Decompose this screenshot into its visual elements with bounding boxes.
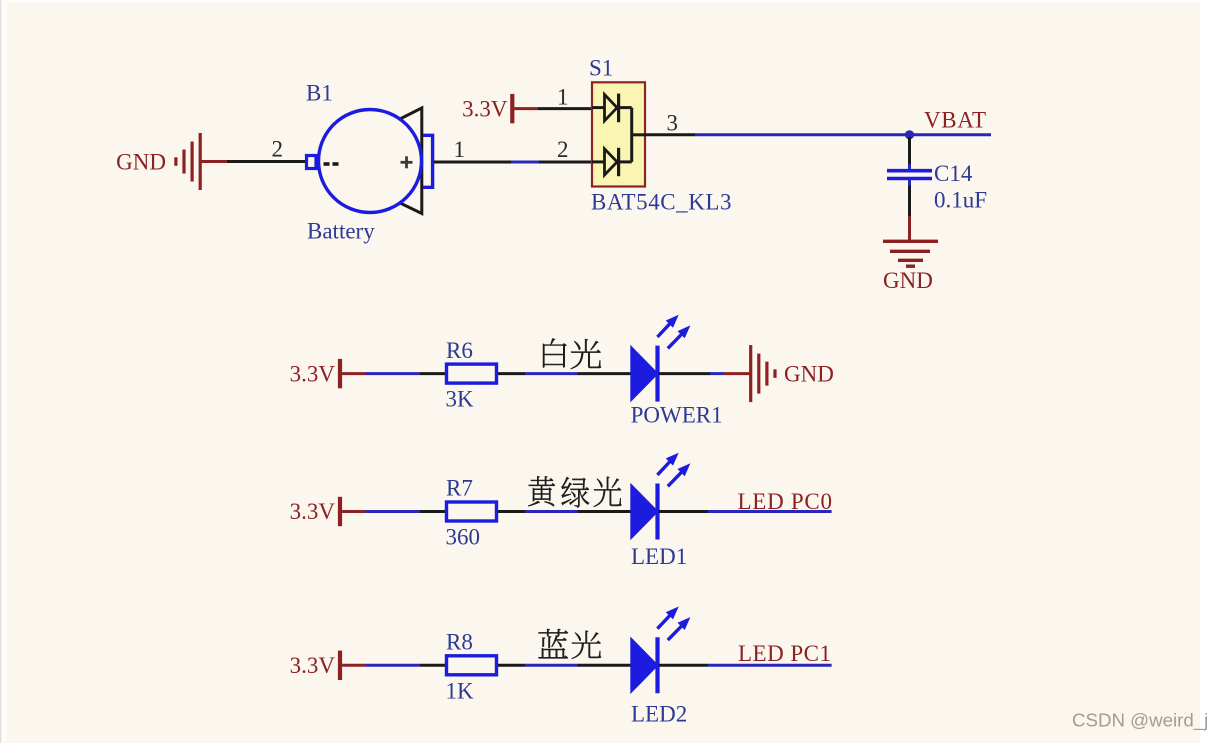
svg-text:R7: R7 [446, 476, 473, 501]
label 黄 [528, 476, 555, 506]
power 3.3V (row R6) [290, 359, 340, 388]
svg-text:1K: 1K [446, 678, 475, 703]
resistor R8 1K [446, 630, 497, 704]
LED LED1 [630, 453, 690, 541]
svg-text:VBAT: VBAT [924, 108, 986, 133]
svg-text:BAT54C_KL3: BAT54C_KL3 [591, 189, 732, 214]
wire 3.3V to R8 [342, 664, 445, 667]
wire 3.3V to S1 pin 1 [514, 107, 592, 110]
svg-text:Battery: Battery [307, 219, 375, 244]
wire R6 to LED [498, 372, 631, 375]
ground GND left power symbol [116, 150, 166, 175]
svg-text:GND: GND [784, 362, 834, 387]
wire C14 to GND [908, 180, 911, 240]
svg-text:GND: GND [116, 150, 166, 175]
svg-text:LED1: LED1 [631, 544, 687, 569]
svg-text:CSDN @weird_j: CSDN @weird_j [1072, 710, 1208, 732]
svg-text:360: 360 [446, 525, 481, 550]
wire battery pin 1 to S1 pin 2 [434, 161, 592, 164]
LED POWER1 [630, 315, 690, 403]
ground symbol under C14 [883, 241, 938, 266]
svg-text:LED2: LED2 [631, 702, 687, 727]
label 蓝 [539, 629, 569, 658]
wire S1 pin 3 to VBAT [645, 133, 991, 136]
label 白 [543, 338, 566, 367]
svg-text:0.1uF: 0.1uF [934, 188, 987, 213]
svg-text:LED PC0: LED PC0 [738, 489, 833, 514]
svg-text:1: 1 [454, 137, 466, 162]
junction node VBAT [905, 130, 914, 139]
resistor R7 360 [446, 476, 497, 550]
svg-text:S1: S1 [589, 56, 613, 81]
svg-text:R8: R8 [446, 630, 473, 655]
power 3.3V (top, to S1 pin 1) [462, 94, 512, 123]
wire LED2 to net LED PC1 [659, 664, 832, 667]
diode pair S1 body (BAT54C) [592, 82, 645, 186]
wire GND to battery pin 2 [202, 160, 307, 163]
svg-text:3.3V: 3.3V [290, 653, 336, 678]
label 光 [571, 339, 601, 369]
wire R7 to LED [498, 510, 631, 513]
svg-text:2: 2 [272, 137, 284, 162]
svg-text:2: 2 [557, 137, 569, 162]
svg-text:3.3V: 3.3V [290, 499, 336, 524]
power 3.3V (row R7) [290, 497, 340, 526]
svg-text:C14: C14 [934, 161, 973, 186]
wire LED POWER1 to GND [659, 372, 750, 375]
ground symbol left (sideways) [176, 133, 200, 190]
label 光 [572, 631, 601, 659]
svg-text:3.3V: 3.3V [462, 96, 508, 121]
wire R8 to LED [498, 664, 631, 667]
power 3.3V (row R8) [290, 651, 340, 680]
svg-text:3.3V: 3.3V [290, 361, 336, 386]
label 光 [594, 477, 622, 507]
svg-text:1: 1 [557, 85, 569, 110]
svg-text:3: 3 [667, 110, 679, 135]
svg-text:R6: R6 [446, 338, 473, 363]
wire 3.3V to R7 [342, 510, 445, 513]
ground symbol right (sideways) [751, 345, 775, 402]
svg-text:POWER1: POWER1 [631, 403, 723, 428]
svg-text:3K: 3K [446, 387, 475, 412]
wire LED1 to net LED PC0 [659, 510, 832, 513]
wire 3.3V to R6 [342, 372, 445, 375]
wire VBAT to C14 [908, 137, 911, 169]
capacitor C14 [887, 171, 932, 179]
resistor R6 3K [446, 338, 497, 412]
LED LED2 [630, 607, 690, 695]
svg-text:GND: GND [883, 268, 933, 293]
svg-text:LED PC1: LED PC1 [738, 641, 831, 666]
battery B1 coin-cell symbol [307, 108, 433, 214]
svg-text:B1: B1 [306, 81, 333, 106]
label 绿 [561, 477, 589, 507]
